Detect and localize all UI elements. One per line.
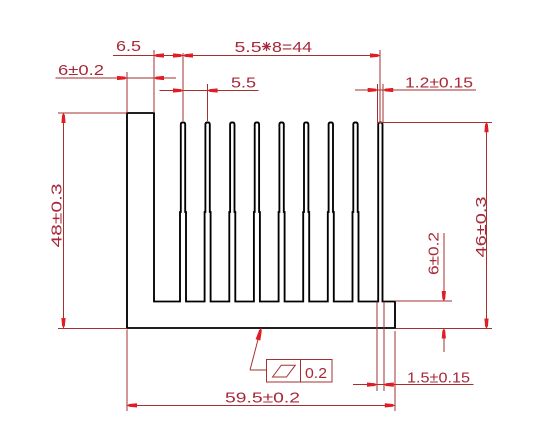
flatness symbol parallelogram bbox=[273, 365, 296, 377]
svg-text:5.5: 5.5 bbox=[235, 39, 262, 56]
dim line 1.5±0.15 (y=384.6) bbox=[353, 384, 473, 386]
extension line base step top to right bbox=[395, 300, 452, 302]
arrow 6.5 right (tip x=183, points right) bbox=[173, 53, 183, 57]
extension line wall top to left bbox=[58, 112, 127, 114]
svg-text:6±0.2: 6±0.2 bbox=[58, 62, 104, 79]
svg-text:59.5±0.2: 59.5±0.2 bbox=[225, 390, 300, 407]
extension line x=377.7 last fin left (top) bbox=[377, 84, 379, 122]
svg-text:0.2: 0.2 bbox=[305, 365, 327, 382]
extension line x=383.2 last fin right (top) bbox=[382, 84, 384, 122]
extension line x=377 last fin left (bottom) bbox=[376, 302, 378, 392]
extension line x=394.8 base right edge bbox=[394, 331, 396, 411]
asterisk star of 5.5*8=44 bbox=[262, 46, 271, 48]
extension line x=383.8 last fin right (bottom) bbox=[383, 302, 385, 392]
arrow 1.5 left (tip x=377, points right) bbox=[367, 383, 377, 387]
svg-text:6±0.2: 6±0.2 bbox=[426, 232, 443, 275]
flatness leader arrowhead (points up at base bottom) bbox=[256, 328, 262, 340]
arrow 59.5 left (points left) bbox=[127, 403, 137, 407]
arrow 5.5 left (tip x=183, points right) bbox=[173, 88, 183, 92]
extension line base bottom to left bbox=[58, 328, 127, 330]
svg-text:5.5: 5.5 bbox=[231, 75, 256, 92]
svg-text:8=44: 8=44 bbox=[272, 39, 312, 56]
flatness leader horizontal bbox=[250, 369, 267, 371]
arrow 46±0.3 bottom (points down) bbox=[484, 319, 488, 329]
arrow 48±0.3 bottom (points down) bbox=[61, 318, 65, 328]
arrow 59.5 right (points right) bbox=[385, 403, 395, 407]
svg-text:1.5±0.15: 1.5±0.15 bbox=[407, 370, 470, 387]
arrow 1.2 right (tip x=383.2, points left) bbox=[383, 88, 393, 92]
svg-text:6.5: 6.5 bbox=[116, 38, 141, 55]
arrow 5.5 right (tip x=207.6, points left) bbox=[208, 88, 218, 92]
dim line 46±0.3 (x=486.5) bbox=[486, 122, 488, 328]
extension line x=154 bbox=[153, 50, 155, 113]
arrow 6±0.2 right (tip x=154, points left) bbox=[154, 76, 164, 80]
arrow 46±0.3 top (points up) bbox=[484, 122, 488, 132]
arrow 6.5 left (tip x=154, points left) bbox=[154, 53, 164, 57]
flatness leader diagonal bbox=[250, 328, 261, 370]
dim line 6±0.2 right upper segment bbox=[443, 233, 445, 301]
dim line 6.5 and 5.5*8=44 (y=55.5) bbox=[113, 55, 380, 57]
dim line 48±0.3 (x=63.5) bbox=[63, 113, 65, 328]
extension line x=183 fin1 center bbox=[182, 53, 184, 121]
extension line x=380.2 last fin center bbox=[379, 50, 381, 122]
dim line 59.5±0.2 (y=405.4) bbox=[127, 404, 395, 406]
dim line 1.2±0.15 (y=90) bbox=[355, 89, 476, 91]
flatness feature control frame box bbox=[267, 360, 333, 382]
arrow 1.2 left (tip x=377.7, points right) bbox=[368, 88, 378, 92]
arrow 6±0.2 left (tip x=127, points right) bbox=[117, 76, 127, 80]
extension line x=127 above wall bbox=[126, 72, 128, 113]
arrow 44 right (tip x=380, points right) bbox=[370, 53, 380, 57]
arrow 48±0.3 top (points up) bbox=[61, 113, 65, 123]
svg-text:46±0.3: 46±0.3 bbox=[473, 197, 490, 258]
extension line x=207.6 fin2 center bbox=[207, 84, 209, 121]
dim line 6±0.2 top-left (y=78) bbox=[56, 77, 177, 79]
arrow 1.5 right (tip x=383.8, points left) bbox=[384, 383, 394, 387]
heatsink profile outline bbox=[127, 113, 395, 328]
svg-text:48±0.3: 48±0.3 bbox=[49, 184, 66, 248]
arrow 44 left (tip x=183, points left) bbox=[183, 53, 193, 57]
dim line 5.5 (y=90.5) bbox=[159, 90, 258, 92]
svg-text:1.2±0.15: 1.2±0.15 bbox=[405, 75, 473, 92]
extension line fin top to right bbox=[377, 121, 492, 123]
dim line 6±0.2 right lower segment bbox=[443, 329, 445, 353]
arrow 6±0.2 right lower (points up) bbox=[442, 329, 446, 339]
extension line base bottom to right bbox=[396, 328, 492, 330]
flatness frame divider bbox=[300, 360, 302, 382]
extension line x=127 below base bbox=[126, 330, 128, 412]
arrow 6±0.2 right upper (points down) bbox=[442, 291, 446, 301]
